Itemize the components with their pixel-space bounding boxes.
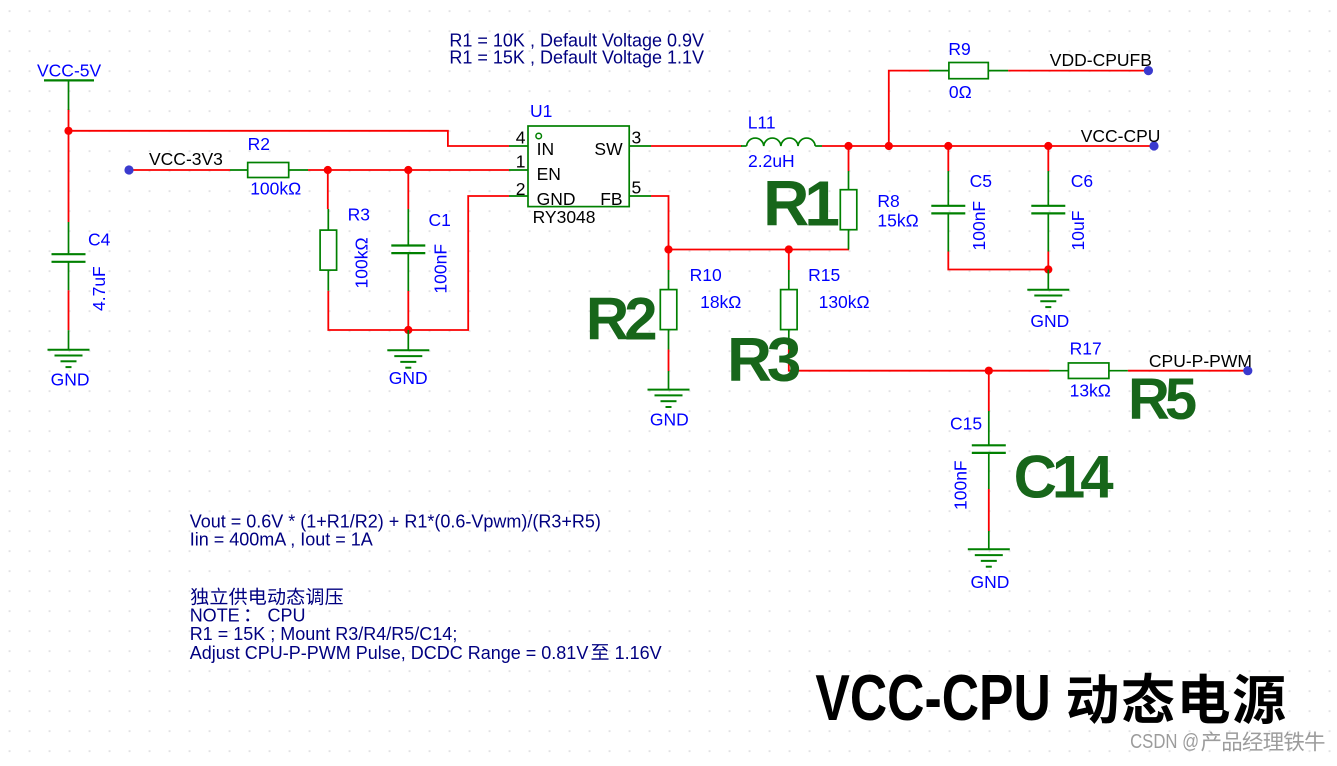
note adjust <box>190 643 662 663</box>
junction C1/GND <box>404 326 412 334</box>
overlay text C14 <box>1014 443 1115 510</box>
U1 pin 3 SW <box>594 128 651 160</box>
svg-text:100nF: 100nF <box>969 201 989 251</box>
svg-text:U1: U1 <box>530 101 552 121</box>
power port VCC-5V <box>37 60 102 110</box>
resistor R8 <box>840 171 918 250</box>
wire R9 to VDD-CPUFB <box>1008 70 1148 72</box>
svg-text:100nF: 100nF <box>431 244 451 294</box>
resistor R10 <box>660 265 741 350</box>
U1 pin 1 EN <box>509 151 561 184</box>
svg-text:1: 1 <box>516 151 526 171</box>
capacitor C5 <box>931 171 992 252</box>
note NOTE CPU <box>190 605 306 625</box>
wire C4 bottom <box>68 290 70 330</box>
junction R2/R3 <box>324 166 332 174</box>
svg-text:R1 = 15K ; Mount R3/R4/R5/C14;: R1 = 15K ; Mount R3/R4/R5/C14; <box>190 624 458 644</box>
node VDD-CPUFB <box>1050 50 1153 75</box>
svg-text:Iin = 400mA , Iout = 1A: Iin = 400mA , Iout = 1A <box>190 529 373 549</box>
wire VCC-3V3 to R2 <box>129 169 230 171</box>
svg-text:R1: R1 <box>763 167 838 239</box>
svg-text:R2: R2 <box>586 285 655 352</box>
svg-text:R17: R17 <box>1070 339 1102 359</box>
svg-text:R8: R8 <box>877 191 899 211</box>
svg-text:C14: C14 <box>1014 443 1115 510</box>
svg-text:5: 5 <box>632 177 642 197</box>
junction C15 top <box>985 367 993 375</box>
junction VCC-5V/C4 <box>64 127 72 135</box>
wire R3 top <box>327 170 329 209</box>
junction R15 top <box>785 245 793 253</box>
svg-text:GND: GND <box>389 368 428 388</box>
svg-text:R9: R9 <box>948 39 970 59</box>
wire C1 top <box>407 170 409 209</box>
junction L11/R8 <box>844 142 852 150</box>
wire U1 FB to node <box>651 196 669 250</box>
inductor L11 <box>741 113 822 172</box>
watermark CSDN <box>1130 731 1324 753</box>
overlay text R3 <box>727 326 800 395</box>
resistor R17 <box>1049 339 1127 401</box>
svg-text:R1 = 15K , Default Voltage 1.1: R1 = 15K , Default Voltage 1.1V <box>449 47 704 67</box>
junction C6 top <box>1044 142 1052 150</box>
svg-text:CSDN @: CSDN @ <box>1130 731 1199 753</box>
wire C15 top red <box>988 371 990 411</box>
node CPU-P-PWM <box>1149 351 1253 375</box>
U1 pin 5 FB <box>600 177 651 209</box>
svg-text:130kΩ: 130kΩ <box>819 292 870 312</box>
junction FB/R10 <box>664 245 672 253</box>
resistor R3 <box>320 205 371 291</box>
junction C1 top <box>404 166 412 174</box>
capacitor C6 <box>1031 171 1093 252</box>
svg-text:CPU: CPU <box>268 605 306 625</box>
wire R15 top <box>788 250 790 271</box>
wire R9 branch up <box>889 71 929 146</box>
svg-text:Adjust CPU-P-PWM Pulse, DCDC R: Adjust CPU-P-PWM Pulse, DCDC Range = 0.8… <box>190 643 589 663</box>
wire R15 bottom to PWM rail <box>789 350 1050 371</box>
overlay text R1 <box>763 167 838 239</box>
svg-text:VCC-5V: VCC-5V <box>37 60 102 80</box>
svg-text:SW: SW <box>594 139 623 159</box>
ground GND R10 <box>648 371 690 430</box>
wire R10 top <box>668 250 670 271</box>
svg-text:4.7uF: 4.7uF <box>89 266 109 311</box>
svg-text:NOTE: NOTE <box>190 605 240 625</box>
wire FB rail <box>669 249 850 251</box>
svg-text:EN: EN <box>537 164 561 184</box>
note vout formula <box>190 511 601 549</box>
note mount <box>190 624 458 644</box>
wire R3 bottom to GND rail to U1 pin2 <box>328 196 509 330</box>
resistor R15 <box>781 265 870 350</box>
svg-text:RY3048: RY3048 <box>533 207 596 227</box>
wire C15 bottom red <box>988 489 990 531</box>
resistor R9 <box>929 39 1008 102</box>
note default voltage <box>449 30 704 67</box>
svg-text:C5: C5 <box>970 171 992 191</box>
wire VCC-5V vertical to C4 <box>68 109 70 222</box>
U1 designator and value <box>530 101 596 227</box>
wire R17 to CPU-P-PWM <box>1128 370 1248 372</box>
junction C5/C6 GND <box>1044 265 1052 273</box>
svg-text:100kΩ: 100kΩ <box>250 179 301 199</box>
svg-text:C15: C15 <box>950 413 982 433</box>
svg-text:R3: R3 <box>348 205 370 225</box>
junction R9 branch <box>885 142 893 150</box>
svg-text:R5: R5 <box>1128 367 1196 432</box>
svg-text:4: 4 <box>516 128 526 148</box>
svg-text:3: 3 <box>632 128 642 148</box>
wire C6 bottom <box>1047 252 1049 270</box>
svg-text:VCC-CPU: VCC-CPU <box>1081 126 1161 146</box>
svg-text:GND: GND <box>971 572 1010 592</box>
svg-text:10uF: 10uF <box>1068 211 1088 251</box>
svg-text:R3: R3 <box>727 326 800 395</box>
svg-text:1.16V: 1.16V <box>615 643 662 663</box>
wire VCC-5V rail to U1 pin4 <box>69 131 510 146</box>
op-amp U1 RY3048 body <box>528 126 629 207</box>
svg-text:GND: GND <box>1030 311 1069 331</box>
wire R8 top <box>848 146 850 171</box>
capacitor C15 <box>950 411 1006 510</box>
svg-text:15kΩ: 15kΩ <box>877 210 918 230</box>
capacitor C1 <box>391 209 451 294</box>
svg-text:L11: L11 <box>748 113 776 133</box>
svg-text:IN: IN <box>537 139 555 159</box>
svg-text:FB: FB <box>600 189 622 209</box>
svg-text:13kΩ: 13kΩ <box>1070 381 1111 401</box>
svg-text:R2: R2 <box>248 134 270 154</box>
wire C5 top <box>947 146 949 171</box>
svg-text:VCC-3V3: VCC-3V3 <box>149 149 223 169</box>
node VCC-3V3 <box>124 149 223 175</box>
svg-text:GND: GND <box>51 369 90 389</box>
svg-text:C4: C4 <box>88 230 111 250</box>
junction C5 top <box>944 142 952 150</box>
overlay text R5 <box>1128 367 1196 432</box>
ground GND C15 <box>968 531 1010 592</box>
wire U1 SW to L11 <box>651 145 742 147</box>
capacitor C4 <box>52 222 111 311</box>
overlay text R2 <box>586 285 655 352</box>
ground GND C5/C6 <box>1027 270 1069 331</box>
svg-text:GND: GND <box>650 410 689 430</box>
U1 pin 4 IN <box>509 128 554 160</box>
svg-text:R10: R10 <box>690 265 722 285</box>
ground GND C1 <box>387 330 429 388</box>
U1 pin 2 GND <box>509 179 575 209</box>
svg-text:C6: C6 <box>1071 171 1093 191</box>
svg-text:100nF: 100nF <box>951 460 971 510</box>
title VCC-CPU <box>815 661 1285 734</box>
svg-text:Vout = 0.6V * (1+R1/R2) + R1*(: Vout = 0.6V * (1+R1/R2) + R1*(0.6-Vpwm)/… <box>190 511 601 531</box>
wire C1 bottom <box>407 291 409 330</box>
resistor R2 <box>230 134 308 199</box>
node VCC-CPU <box>1081 126 1161 151</box>
wire R10 bottom <box>668 350 670 372</box>
svg-text:VDD-CPUFB: VDD-CPUFB <box>1050 50 1152 70</box>
note chinese line1 <box>191 588 343 606</box>
svg-text:C1: C1 <box>429 210 451 230</box>
svg-text:100kΩ: 100kΩ <box>352 237 372 288</box>
svg-text:VCC-CPU: VCC-CPU <box>815 661 1050 734</box>
svg-text:18kΩ: 18kΩ <box>700 292 741 312</box>
wire C5 bottom <box>948 252 1048 270</box>
svg-text:R15: R15 <box>808 265 840 285</box>
svg-text:2: 2 <box>516 179 526 199</box>
svg-text:0Ω: 0Ω <box>949 82 972 102</box>
ground GND C4 <box>48 330 90 389</box>
wire L11 to VCC-CPU net <box>822 145 1154 147</box>
wire C6 top <box>1047 146 1049 171</box>
wire R2 to U1 pin1 EN <box>308 169 509 171</box>
